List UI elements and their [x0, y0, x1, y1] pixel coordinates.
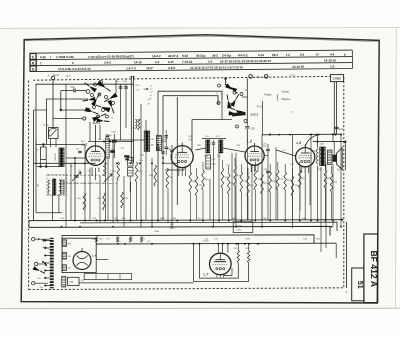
- capacitor C48: [124, 86, 128, 88]
- svg-text:t: t: [50, 55, 51, 59]
- svg-text:1-7568 9-v2b: 1-7568 9-v2b: [56, 55, 74, 59]
- resistor R42: [299, 170, 302, 188]
- wire y118 horizontal: [53, 118, 83, 120]
- cap C44: [266, 170, 270, 172]
- svg-text:CARBO: CARBO: [333, 78, 342, 81]
- svg-text:C44a: C44a: [154, 231, 160, 233]
- wire L5 grid left: [276, 150, 296, 156]
- L2 pin wires: [178, 167, 180, 176]
- parts table frame: [30, 50, 353, 71]
- tube L.1 anode: [91, 150, 100, 152]
- svg-text:6-2b: 6-2b: [40, 55, 46, 59]
- wire grid loop upper: [158, 91, 222, 99]
- voltage selector dots: [42, 261, 44, 263]
- page top edge: [0, 27, 400, 30]
- svg-text:L.5: L.5: [297, 141, 302, 145]
- svg-text:Cu134: Cu134: [202, 241, 209, 243]
- SR1 contact circles: [94, 83, 97, 86]
- twin feeder wires: [130, 77, 132, 164]
- L5 anode top wire: [305, 135, 320, 148]
- bottom wire runs: [79, 282, 194, 284]
- svg-text:2-6: 2-6: [300, 53, 305, 57]
- cap right of L3: [266, 148, 270, 150]
- terminal circle C18 right: [86, 90, 90, 94]
- svg-text:Ph₇: Ph₇: [198, 218, 202, 220]
- lower IF transformer windings: [48, 180, 50, 194]
- svg-text:14-12-15: 14-12-15: [292, 65, 304, 69]
- svg-text:C30: C30: [251, 128, 256, 131]
- tube L.2 grid: [175, 154, 189, 156]
- svg-text:BF 412 A: BF 412 A: [369, 250, 379, 286]
- wire y140 top link: [107, 139, 144, 141]
- resistor R22: [237, 251, 239, 263]
- svg-text:C: C: [32, 55, 35, 59]
- svg-text:Schall: Schall: [282, 90, 290, 94]
- small coil stack: [128, 158, 134, 167]
- capacitor C4: [119, 86, 123, 88]
- wire L3 to C41: [264, 155, 268, 157]
- shield dashed line: [48, 174, 105, 176]
- outer drawing border: [21, 35, 379, 303]
- svg-text:14-15: 14-15: [134, 60, 142, 64]
- winding block 2: [62, 252, 66, 259]
- L7 loop wires: [194, 244, 249, 281]
- IF can L9: [156, 136, 161, 151]
- wire y144 horizontal: [36, 144, 85, 146]
- svg-text:C18: C18: [71, 87, 76, 89]
- power transformer core: [50, 238, 54, 288]
- caps left of L2 cluster: [156, 147, 159, 149]
- svg-text:·VD4: ·VD4: [237, 226, 243, 228]
- band switch SR1 blades: [89, 86, 97, 93]
- junctions on buses: [74, 220, 76, 222]
- resistor C33: [195, 176, 198, 196]
- CARBO terminal box: [330, 75, 343, 82]
- svg-text:Σ 7: Σ 7: [67, 74, 71, 78]
- mains wires: [40, 238, 51, 240]
- antenna coil with core: [59, 148, 64, 167]
- svg-text:u-qu-v(2)-u-v-21-24-25-(26)-p(: u-qu-v(2)-u-v-21-24-25-(26)-p(27): [88, 54, 134, 58]
- fuse winding block: [62, 276, 66, 287]
- trimmer capacitor arrow 1: [72, 172, 81, 181]
- wire y148 L2 to can: [195, 148, 205, 150]
- speaker magnet: [333, 155, 337, 162]
- wire x146 vertical: [145, 120, 147, 140]
- resistor C43: [330, 174, 333, 192]
- svg-text:C47: C47: [339, 128, 344, 131]
- junction dots bus 4: [117, 243, 119, 245]
- caps right of cans: [165, 135, 168, 137]
- cap C3 left of L1: [78, 150, 82, 152]
- coil near L1: [106, 138, 110, 158]
- resistor R24: [234, 166, 237, 186]
- wire y170 cathode link: [165, 169, 184, 171]
- svg-text:C.1a: C.1a: [44, 125, 50, 127]
- resistor R26: [269, 172, 272, 192]
- tube L.3 cathode pins: [250, 159, 252, 161]
- bus right verticals: [346, 222, 348, 288]
- dashed chassis border top: [33, 76, 330, 80]
- terminal PU 2: [264, 75, 268, 79]
- wire drops to L7: [217, 244, 219, 253]
- wire y141 grid link: [88, 141, 134, 143]
- speaker frame wire: [345, 142, 347, 170]
- resistor R36: [189, 172, 192, 192]
- SR2 dark bar lower: [232, 112, 246, 117]
- svg-text:C197: C197: [163, 138, 169, 140]
- contact circle y118: [83, 117, 86, 120]
- dashed chassis border left: [28, 80, 30, 289]
- svg-text:L.6: L.6: [92, 253, 97, 257]
- wire grid loop lower: [163, 96, 218, 104]
- IF can L8: [144, 131, 150, 151]
- bus line 1b: [80, 222, 337, 231]
- bus line 1: [29, 219, 342, 222]
- output transformer secondary: [327, 150, 332, 164]
- band switch SR2 blades: [225, 84, 233, 91]
- svg-text:16-5*: 16-5*: [146, 66, 154, 70]
- winding block 3: [62, 265, 66, 271]
- bus line 4: [96, 242, 336, 245]
- table row label C: [30, 54, 36, 60]
- capacitor C18: [73, 89, 75, 93]
- tube L.3 envelope: [245, 146, 264, 165]
- svg-text:SPULE: SPULE: [55, 153, 57, 161]
- svg-text:4-19: 4-19: [258, 53, 264, 57]
- wire x33 long vertical: [33, 110, 35, 220]
- capacitor C47: [335, 126, 339, 128]
- arrow marker: [144, 88, 149, 90]
- resistor R27: [284, 172, 287, 190]
- power transformer terminal stubs: [46, 240, 51, 242]
- resistor R4a: [103, 193, 106, 210]
- network box VD4: [233, 222, 253, 233]
- vertical wire group feeding buses: [84, 163, 86, 220]
- capacitor C30: [245, 126, 249, 128]
- resistor R25: [247, 176, 250, 196]
- dark cluster MB: [124, 155, 129, 157]
- wire x116 vertical: [115, 80, 117, 94]
- wire x262 vertical upper: [262, 101, 264, 135]
- rectifier tube L6: [73, 252, 91, 270]
- antenna terminal A: [51, 76, 54, 79]
- terminal PU 1: [249, 75, 253, 79]
- trimmer capacitor arrow 2: [104, 174, 112, 182]
- sheet number box 51: [352, 268, 364, 301]
- wire x158 long vertical: [157, 91, 159, 220]
- table row label G: [30, 66, 36, 71]
- svg-text:C19?: C19?: [156, 136, 162, 138]
- svg-text:t· tu-a: t· tu-a: [289, 74, 295, 77]
- svg-text:G: G: [32, 67, 35, 71]
- tube L.2 envelope: [171, 146, 193, 168]
- svg-text:4-4: 4-4: [330, 52, 335, 56]
- tube L.3 grid: [249, 153, 261, 155]
- tube L.5 envelope: [296, 148, 315, 167]
- junction dots row: [39, 165, 41, 167]
- wire x40 x46 verticals: [40, 160, 42, 167]
- wire y163 horizontal: [34, 162, 96, 164]
- svg-text:14-12-16: 14-12-16: [324, 58, 336, 62]
- wire y119 loop to SR2: [192, 119, 232, 121]
- tube L.1 cathode pins: [91, 159, 93, 161]
- resistor C38: [291, 176, 294, 196]
- svg-text:LŚ: LŚ: [337, 169, 340, 172]
- C1 lead wires: [50, 139, 52, 148]
- tube L.1 grid: [89, 153, 101, 155]
- svg-text:Magnet: Magnet: [282, 97, 291, 101]
- svg-text:{: {: [277, 94, 279, 101]
- svg-text:C-: C-: [28, 239, 31, 241]
- svg-text:30-31p: 30-31p: [196, 54, 206, 58]
- wire x292 vertical stub: [291, 135, 293, 155]
- L7 pin wires: [216, 274, 218, 277]
- resistor C31: [240, 172, 243, 192]
- svg-text:1-3: 1-3: [208, 60, 213, 64]
- wire x36 long vertical: [35, 140, 37, 213]
- resistor R33: [154, 165, 157, 186]
- dashed chassis border right: [343, 77, 345, 288]
- anode line y141: [313, 141, 346, 143]
- wire y110 horizontal: [61, 109, 87, 111]
- wire x141 vertical: [140, 104, 142, 140]
- page bottom edge: [0, 307, 400, 309]
- svg-text:2RP: 2RP: [197, 145, 202, 147]
- SR2 contact circles: [218, 84, 221, 87]
- svg-text:2-2: 2-2: [155, 60, 160, 64]
- tube L.5 anode: [301, 152, 310, 154]
- svg-text:2-6-9p: 2-6-9p: [222, 53, 231, 57]
- resistor R28: [324, 170, 327, 188]
- dashed chassis border bottom: [29, 288, 344, 290]
- wire L7 right: [249, 280, 264, 282]
- wire x75 vertical: [74, 158, 76, 220]
- wire y166 horizontal: [36, 166, 60, 168]
- wire transformer down: [52, 195, 54, 220]
- resistor R16a: [83, 193, 86, 210]
- svg-text:9-32: 9-32: [182, 54, 188, 58]
- wire x225 vertical from border: [225, 78, 227, 85]
- resistor C36: [277, 170, 280, 190]
- mains terminal 1: [32, 238, 35, 241]
- L1 pin wires: [91, 168, 93, 177]
- L7 inner bars: [215, 261, 227, 263]
- vertical wire group 2: [65, 158, 67, 227]
- wire x192 vertical: [191, 120, 193, 151]
- svg-text:40-67-2: 40-67-2: [168, 54, 179, 58]
- svg-text:14h: 14h: [68, 256, 71, 258]
- mains switch wedge: [33, 266, 40, 271]
- tube L.7 envelope: [210, 253, 232, 275]
- output transformer primary bumps: [317, 149, 319, 164]
- svg-text:16-17-16-19-21-23-26-26-31-33-: 16-17-16-19-21-23-26-26-31-33-36-37: [220, 59, 271, 63]
- svg-text:1-2: 1-2: [330, 64, 335, 68]
- svg-text:P.U.: P.U.: [257, 76, 262, 79]
- tube L.5 cathode pins: [301, 160, 303, 162]
- svg-text:5-11: 5-11: [168, 60, 174, 64]
- resistor box 24: [41, 147, 47, 160]
- mains terminal 2: [35, 262, 38, 265]
- wire y150 can to L3: [223, 148, 245, 152]
- svg-text:L.7: L.7: [204, 273, 209, 277]
- svg-text:p: p: [344, 52, 346, 56]
- wire x130 coil leads: [129, 176, 131, 192]
- tuning capacitor C1: [49, 128, 59, 139]
- tube L.7 anode: [215, 259, 225, 261]
- L5 pin wires: [301, 167, 303, 174]
- tube L.7 cathode pins: [216, 268, 218, 270]
- svg-text:7-10-12: 7-10-12: [182, 60, 193, 64]
- wire x66 vertical: [65, 84, 67, 158]
- resistor R19: [221, 168, 224, 188]
- wire outer input loop: [36, 84, 134, 165]
- svg-text:7h: 7h: [111, 118, 113, 120]
- svg-text:24h: 24h: [68, 268, 71, 270]
- wire y212 horizontal: [36, 212, 62, 214]
- resistor x104 upper: [104, 163, 106, 176]
- wire x262 vertical: [261, 135, 263, 166]
- tube L.2 anode: [177, 151, 187, 153]
- junction dots y134 line: [269, 134, 271, 136]
- svg-text:1-8-7-3: 1-8-7-3: [126, 66, 136, 70]
- wire y163 mid horizontal: [163, 162, 177, 164]
- wire x163 vertical: [162, 96, 164, 163]
- wire x60 vertical: [60, 91, 62, 111]
- resistor R13: [135, 162, 138, 182]
- svg-text:C4B: C4B: [123, 81, 128, 83]
- svg-text:14-8-2: 14-8-2: [152, 54, 161, 58]
- resistor C29: [227, 174, 230, 194]
- svg-text:C3B: C3B: [112, 131, 117, 133]
- resistor R5a: [138, 119, 140, 130]
- IF can C10: [206, 140, 210, 153]
- fuse box F1: [67, 277, 79, 285]
- wire x247 vertical from PU: [246, 78, 248, 125]
- wire x120 vertical: [120, 84, 122, 140]
- junction row y158: [74, 162, 76, 164]
- antenna down-lead wire: [52, 80, 54, 128]
- bus line 3: [62, 235, 314, 244]
- page right edge: [395, 28, 398, 309]
- resistor R9: [166, 168, 169, 188]
- caps between IF cans: [212, 142, 215, 144]
- caps left of L2: [170, 149, 174, 151]
- L1 grid cap wire: [95, 125, 97, 146]
- small box component: [206, 155, 211, 169]
- contact circle y110: [87, 108, 90, 111]
- svg-text:29-3: 29-3: [272, 53, 278, 57]
- bus line 2: [29, 226, 330, 235]
- svg-text:3-4-6: 3-4-6: [104, 61, 111, 65]
- small resistors on bus 3: [95, 237, 97, 243]
- junction node x61: [60, 109, 62, 111]
- tube L.3 anode: [250, 150, 259, 152]
- L3 pin wires: [250, 165, 252, 172]
- terminal strip: [84, 274, 132, 280]
- resistor R16: [202, 170, 205, 190]
- bus left bends: [28, 221, 30, 228]
- IF can C11: [219, 140, 223, 153]
- wire linking can tops: [202, 138, 226, 140]
- svg-text:34-3: 34-3: [212, 54, 218, 58]
- svg-text:C25: C25: [189, 140, 194, 142]
- wire x177 long vertical: [176, 97, 178, 205]
- table row label R: [30, 60, 36, 65]
- resistor R12a: [121, 192, 124, 208]
- svg-text:P U: P U: [257, 105, 262, 109]
- svg-text:C41a: C41a: [262, 144, 268, 146]
- table label column: [35, 53, 37, 71]
- top bus y134 right half: [262, 133, 341, 136]
- rectifier box: [62, 238, 96, 272]
- tube L.2 cathode pins: [178, 160, 180, 162]
- svg-text:S.R.2: S.R.2: [251, 113, 259, 117]
- shield dash-dot line: [62, 183, 117, 185]
- tube L.5 grid: [299, 154, 311, 156]
- tube L.1 envelope: [86, 146, 105, 165]
- wire x85 vertical: [84, 145, 86, 164]
- coil bumps x135: [135, 120, 137, 129]
- shield dashed box lower IF: [47, 174, 67, 176]
- SR2 wires: [242, 96, 247, 98]
- L2 grid cap wire: [181, 143, 183, 146]
- mains terminal 3: [32, 282, 35, 285]
- resistor R3: [117, 162, 120, 180]
- winding block 1: [62, 240, 66, 247]
- svg-text:S.R.1: S.R.1: [93, 121, 101, 125]
- svg-text:11-14-2-13-17-27-15-10-11-1-5-: 11-14-2-13-17-27-15-10-11-1-5-7-13-18: [190, 65, 243, 70]
- model box BF 412 A: [364, 234, 378, 303]
- svg-text:17-6-2-2b-3-4-21-9-8-13: 17-6-2-2b-3-4-21-9-8-13: [58, 67, 91, 71]
- svg-text:4-6-5-2: 4-6-5-2: [238, 53, 248, 57]
- svg-text:t-4: t-4: [286, 53, 290, 57]
- wire second input loop: [47, 99, 89, 145]
- wire x126 vertical: [125, 84, 127, 128]
- resistor C35: [254, 170, 257, 190]
- resistor R23: [247, 251, 249, 263]
- svg-text:Radio: Radio: [265, 93, 273, 97]
- tube L.7 grid: [214, 261, 227, 263]
- resistor R21: [261, 174, 264, 194]
- wires SR1 to L1: [89, 122, 91, 141]
- CARBO twin wires: [333, 82, 335, 135]
- speaker cone: [337, 148, 343, 170]
- output transformer core: [320, 147, 325, 166]
- svg-text:9-5-6: 9-5-6: [168, 66, 175, 70]
- svg-text:L.3: L.3: [247, 140, 252, 144]
